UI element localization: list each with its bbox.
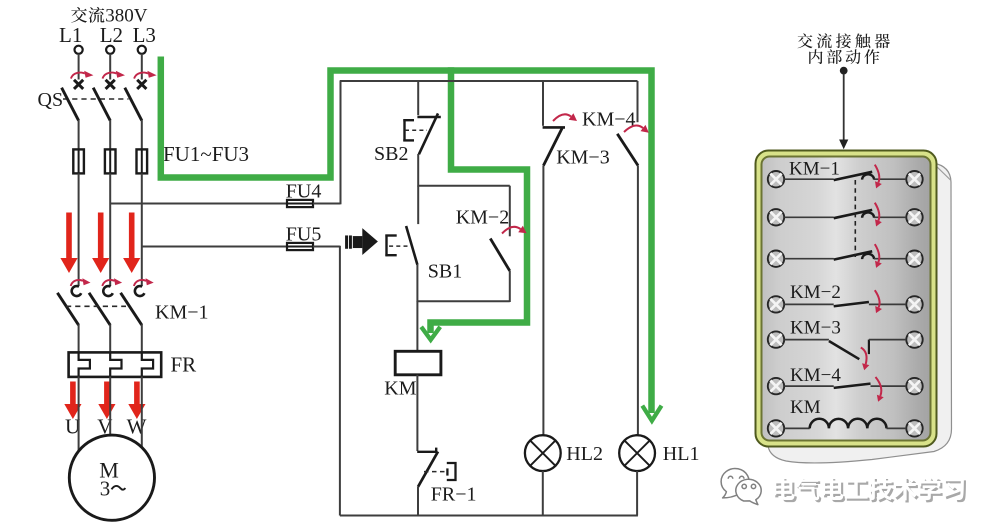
label KM-2 box — [790, 282, 841, 303]
wire L2 tap to FU4 — [110, 203, 287, 205]
label FU5 — [286, 224, 322, 246]
svg-text:KM−1: KM−1 — [789, 159, 840, 180]
fuse FU4 — [287, 200, 313, 207]
svg-text:KM−4: KM−4 — [582, 109, 636, 131]
red current arrow to U — [64, 382, 81, 420]
wire FR to motor W — [141, 377, 143, 449]
wire KM-3 to HL2 — [542, 166, 545, 436]
label AC 380V supply — [71, 5, 148, 26]
svg-text:L3: L3 — [133, 23, 156, 47]
fuse FU3 — [137, 149, 148, 174]
wire to SB1 — [417, 186, 419, 224]
wire FR to motor V — [109, 377, 111, 436]
label KM-4 — [582, 109, 636, 131]
wire top rail corner to KM-4 — [637, 81, 639, 122]
svg-text:L1: L1 — [59, 23, 82, 47]
terminal left row4 — [768, 296, 784, 312]
svg-text:FU5: FU5 — [286, 224, 322, 246]
wire FR-1 to bottom rail — [417, 487, 419, 516]
svg-text:HL1: HL1 — [663, 443, 700, 465]
wire to KM coil — [416, 301, 418, 352]
wire phase2 fuse to KM-1 — [109, 173, 111, 286]
red arrow KM-1 row1 — [875, 165, 882, 189]
contactor KM-1 main contact arc — [72, 286, 82, 296]
wire HL2 to bottom rail — [542, 471, 544, 516]
pointer line — [843, 74, 845, 141]
wire parallel branch top — [418, 185, 510, 187]
terminal L3 — [138, 46, 146, 54]
red arrow KM-4 box — [876, 377, 884, 402]
terminal right row7 — [906, 420, 922, 436]
wire KM-1 to FR — [109, 324, 111, 353]
label KM coil — [384, 378, 416, 400]
wire KM-4 to HL1 — [636, 166, 639, 437]
label V — [97, 415, 112, 439]
contactor KM-1 main blade — [89, 293, 110, 325]
switch QS fixed contact x mark — [74, 80, 83, 89]
label U — [65, 415, 80, 439]
label QS — [38, 89, 64, 111]
red arrow KM-1 row2 — [875, 203, 882, 227]
red arrow over KM-1 contact — [102, 278, 122, 286]
contactor housing outer border — [756, 151, 937, 447]
switch QS blade — [125, 88, 142, 121]
terminal right row4 — [906, 296, 922, 312]
terminal right row2 — [906, 209, 922, 225]
red arrow KM-2 closing — [502, 226, 527, 234]
svg-text:FU1~FU3: FU1~FU3 — [163, 142, 249, 166]
label AC contactor internal action line2 — [809, 49, 879, 64]
red arrow over QS contact — [134, 71, 157, 79]
label KM-3 — [556, 147, 610, 169]
terminal left row3 — [768, 251, 784, 267]
fuse FU5 — [287, 243, 313, 250]
wire parallel branch bottom — [417, 300, 510, 302]
wire KM-2 to parallel bottom — [509, 271, 511, 302]
label AC contactor internal action line1 — [798, 33, 890, 48]
svg-text:L2: L2 — [100, 23, 123, 47]
pushbutton SB1 normally open start — [385, 226, 417, 265]
label KM-2 — [456, 207, 510, 229]
svg-text:3: 3 — [100, 477, 111, 501]
motor M 3-phase — [69, 435, 154, 520]
wire top rail to SB2 — [417, 81, 419, 115]
switch QS blade — [62, 88, 79, 121]
label HL2 — [566, 443, 603, 465]
wire HL1 to bottom rail — [636, 471, 638, 516]
wire FR to motor U — [78, 377, 80, 452]
green energized path branch to KM coil — [421, 67, 527, 340]
svg-text:KM−2: KM−2 — [456, 207, 510, 229]
wire FU5 to bottom rail — [313, 246, 340, 516]
wire KM-1 to FR — [78, 324, 80, 353]
wire QS to fuse — [78, 120, 80, 150]
svg-text:KM: KM — [790, 397, 821, 418]
wire SB2 to parallel branch — [417, 154, 419, 187]
KM-1 gang dashed link vertical — [854, 180, 856, 257]
red current arrow phase1 — [60, 213, 77, 274]
label KM-3 box — [790, 318, 841, 339]
label FU1~FU3 — [163, 142, 249, 166]
KM-1 main contact row3 — [784, 251, 906, 259]
wire L3 tap to FU5 — [142, 246, 287, 248]
svg-text:FU4: FU4 — [286, 181, 322, 203]
red arrow KM-1 row3 — [875, 244, 882, 268]
fuse FU2 — [105, 149, 116, 174]
red arrow over KM-1 contact — [134, 278, 154, 286]
thermal relay FR heater element — [142, 353, 153, 377]
node L1 label — [59, 23, 82, 47]
terminal right row5 — [906, 331, 922, 347]
red current arrow to V — [98, 382, 115, 420]
pointer arrowhead — [839, 140, 848, 150]
lamp HL1 — [619, 435, 655, 471]
contactor auxiliary contact KM-2 — [490, 239, 510, 271]
label KM coil box — [790, 397, 821, 418]
wire top rail to KM-3 — [542, 81, 544, 126]
wire to KM-2 contact — [509, 186, 511, 237]
red arrow KM-2 box — [875, 290, 882, 313]
contactor KM-1 gang dashed link — [66, 305, 126, 307]
switch QS fixed contact x mark — [106, 80, 115, 89]
lamp HL2 — [525, 435, 561, 471]
red arrow over QS contact — [71, 71, 94, 79]
contactor housing panel — [762, 157, 931, 441]
wire KM coil to FR-1 — [416, 375, 418, 451]
fuse FU1 — [73, 149, 84, 174]
svg-text:QS: QS — [38, 89, 64, 111]
terminal right row3 — [906, 251, 922, 267]
thermal relay FR heater element — [79, 353, 90, 377]
black annotation arrow press SB1 — [345, 228, 378, 255]
wire top rail — [340, 80, 638, 82]
svg-text:SB1: SB1 — [428, 261, 462, 283]
terminal left row7 — [768, 420, 784, 436]
thermal relay contact FR-1 normally closed — [417, 448, 455, 487]
KM-1 main contact row1 — [784, 172, 906, 180]
node L3 label — [133, 23, 156, 47]
terminal right row1 — [906, 171, 922, 187]
switch QS blade — [93, 88, 110, 121]
terminal left row5 — [768, 331, 784, 347]
switch QS fixed contact x mark — [137, 80, 146, 89]
wire L2 drop — [109, 54, 111, 80]
terminal L1 — [75, 46, 83, 54]
wire QS to fuse — [141, 120, 143, 150]
svg-text:SB2: SB2 — [374, 143, 408, 165]
wire FU4 to top rail — [313, 81, 341, 204]
svg-text:KM: KM — [384, 378, 416, 400]
node L2 label — [100, 23, 123, 47]
svg-text:KM−2: KM−2 — [790, 282, 841, 303]
red arrow over QS contact — [103, 71, 126, 79]
red arrow KM-3 opening — [553, 113, 577, 121]
watermark text dianqi diangong jishu xuexi — [773, 477, 966, 503]
wire KM-1 to FR — [141, 324, 143, 353]
terminal right row6 — [906, 378, 922, 394]
svg-text:KM−1: KM−1 — [155, 302, 209, 324]
terminal left row6 — [768, 378, 784, 394]
contactor KM-1 main blade — [121, 293, 142, 325]
red current arrow phase2 — [92, 213, 109, 274]
KM-3 contact row5 — [784, 340, 906, 360]
wire bottom rail — [340, 515, 638, 517]
svg-text:FR−1: FR−1 — [431, 484, 477, 506]
red current arrow to W — [128, 382, 145, 420]
contactor 3d slab — [766, 163, 952, 463]
wire L3 drop — [141, 54, 143, 80]
contactor KM-1 main contact arc — [135, 286, 145, 296]
svg-text:W: W — [127, 415, 147, 439]
KM-2 contact row4 — [784, 302, 906, 306]
switch QS gang dashed link — [63, 98, 129, 100]
wire SB1 to parallel bottom — [416, 265, 418, 302]
svg-text:KM−4: KM−4 — [790, 365, 841, 386]
red arrow KM-3 box — [861, 348, 870, 371]
KM-4 contact row6 — [784, 384, 906, 388]
svg-text:HL2: HL2 — [566, 443, 603, 465]
pointer dot — [840, 67, 847, 74]
wire phase3 fuse to KM-1 — [141, 173, 143, 286]
green energized path main — [161, 57, 662, 421]
label KM-1 box — [789, 159, 840, 180]
red current arrow phase3 — [123, 213, 140, 274]
thermal relay FR heater element — [110, 353, 121, 377]
KM-1 main contact row2 — [784, 210, 906, 218]
terminal L2 — [106, 46, 114, 54]
contactor coil KM — [395, 351, 441, 375]
contactor auxiliary contact KM-3 normally closed opening — [543, 127, 565, 165]
label FR-1 — [431, 484, 477, 506]
label SB2 — [374, 143, 408, 165]
contactor KM-1 main blade — [57, 293, 78, 325]
red arrow over KM-1 contact — [71, 278, 91, 286]
terminal left row1 — [768, 171, 784, 187]
svg-text:FR: FR — [171, 353, 197, 377]
pushbutton SB2 normally closed — [403, 113, 441, 154]
wire L1 drop — [78, 54, 80, 80]
wire QS to fuse — [109, 120, 111, 150]
label FR — [171, 353, 197, 377]
label KM-1 main — [155, 302, 209, 324]
contactor auxiliary contact KM-4 normally open closing — [617, 134, 638, 166]
contactor KM-1 main contact arc — [103, 286, 113, 296]
label KM-4 box — [790, 365, 841, 386]
watermark wechat logo — [721, 469, 761, 505]
terminal left row2 — [768, 209, 784, 225]
svg-text:KM−3: KM−3 — [556, 147, 610, 169]
label SB1 — [428, 261, 462, 283]
label W — [127, 415, 147, 439]
thermal relay FR box — [69, 352, 162, 377]
label FU4 — [286, 181, 322, 203]
svg-text:KM−3: KM−3 — [790, 318, 841, 339]
red arrow KM-4 closing — [624, 125, 649, 133]
label HL1 — [663, 443, 700, 465]
wire phase1 fuse to KM-1 — [78, 173, 80, 286]
KM coil inductor — [784, 419, 906, 429]
